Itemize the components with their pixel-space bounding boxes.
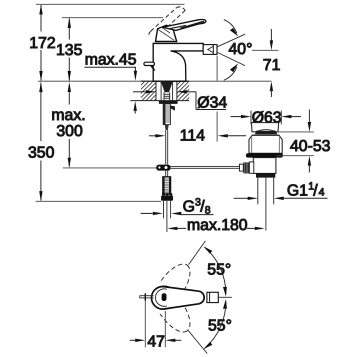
G3/8 union nut bbox=[162, 193, 165, 195]
dimension 350 bbox=[39, 82, 42, 201]
deck hatch left block bbox=[120, 80, 187, 102]
lever handle base (side view) bbox=[156, 25, 177, 41]
40 degree spray angle bbox=[217, 34, 245, 47]
deck hatch right block bbox=[156, 80, 215, 102]
top view solid body circle bbox=[153, 286, 175, 308]
dimension 71 bbox=[252, 49, 279, 51]
svg-text:300: 300 bbox=[56, 123, 83, 140]
dimension 40-53 bbox=[277, 131, 314, 133]
svg-text:114: 114 bbox=[180, 128, 205, 145]
extension line top (dashed handle tip level) bbox=[36, 3, 185, 5]
extension line deck top level bbox=[38, 80, 271, 82]
top view handle capsule bbox=[152, 287, 205, 310]
waste axis centerline bbox=[265, 178, 267, 231]
dimension 114 bbox=[216, 56, 218, 81]
dashed handle swivel positions +/-55 deg bbox=[145, 258, 197, 338]
dimension G3/8 bbox=[141, 212, 153, 214]
angular dimension 55 deg upper bbox=[218, 296, 232, 298]
svg-text:40°: 40° bbox=[229, 41, 253, 58]
washer below deck bbox=[159, 101, 178, 104]
horizontal pop-up rod to waste bbox=[171, 165, 240, 167]
waste plug cap bbox=[251, 123, 278, 132]
svg-text:max.: max. bbox=[51, 107, 85, 124]
inner contour of body bbox=[155, 289, 166, 306]
G3/8 nipple pipe bbox=[163, 201, 165, 219]
svg-text:55°: 55° bbox=[208, 317, 232, 334]
svg-text:71: 71 bbox=[263, 57, 281, 74]
svg-text:8: 8 bbox=[205, 205, 211, 217]
dimension 135 bbox=[68, 18, 71, 81]
svg-text:350: 350 bbox=[28, 145, 55, 162]
svg-text:max.180: max.180 bbox=[187, 217, 248, 234]
pop-up rod hole (dark slot) bbox=[162, 293, 167, 301]
pop-up waste: dimension diam.63 bbox=[250, 111, 252, 125]
deck (mounting surface) hatched bbox=[130, 81, 189, 100]
lever handle blade (side view) bbox=[163, 19, 206, 30]
aerator at spout end bbox=[203, 45, 217, 55]
faucet axis line below bbox=[166, 201, 168, 232]
dimension 172 bbox=[39, 4, 42, 81]
svg-text:G1: G1 bbox=[287, 183, 308, 200]
svg-text:172: 172 bbox=[29, 35, 55, 52]
hose segment below coupling bbox=[165, 171, 167, 177]
faucet body (side view) bbox=[153, 43, 203, 81]
svg-text:55°: 55° bbox=[207, 262, 231, 279]
svg-text:G: G bbox=[183, 199, 195, 216]
taper to rod bbox=[165, 125, 169, 130]
extension line rod level (max.300 bottom) bbox=[63, 167, 156, 169]
waste body lower bbox=[253, 158, 276, 174]
threaded hose end bbox=[163, 177, 171, 195]
svg-text:/: / bbox=[313, 182, 318, 199]
waste body upper bbox=[249, 135, 282, 153]
waste bottom cap bbox=[256, 173, 275, 177]
threaded stud bbox=[163, 104, 170, 125]
spout tip (top view) bbox=[207, 292, 218, 302]
dimension max.300 bbox=[68, 82, 71, 168]
extension line hose end level (350 bottom) bbox=[36, 200, 162, 202]
svg-text:47: 47 bbox=[147, 334, 165, 351]
waste side port bbox=[249, 162, 253, 173]
svg-text:Ø34: Ø34 bbox=[197, 94, 227, 111]
mounting shank in deck hole bbox=[161, 82, 173, 92]
svg-text:135: 135 bbox=[56, 42, 83, 59]
dimension 47 bbox=[144, 301, 146, 348]
dimension max.180 bbox=[167, 227, 177, 230]
rod coupling (cross fitting) bbox=[156, 165, 170, 171]
pop-up rod (top view) bbox=[140, 295, 154, 297]
dimension diam.34 (hole) bbox=[133, 91, 146, 93]
dashed handle (raised position) bbox=[149, 7, 185, 37]
extension line solid handle top level bbox=[62, 17, 163, 19]
rod guide hook bbox=[170, 106, 175, 111]
waste tailpipe bbox=[257, 178, 259, 205]
svg-text:4: 4 bbox=[319, 186, 325, 198]
waste seal flange bbox=[246, 153, 283, 157]
deck top edge bold bbox=[141, 80, 189, 82]
svg-text:40-53: 40-53 bbox=[290, 138, 331, 155]
vertical rod to coupling bbox=[165, 130, 167, 164]
angular dimension 55 deg lower bbox=[188, 330, 207, 354]
svg-text:max.45: max.45 bbox=[85, 51, 137, 68]
faucet base line on deck bbox=[153, 80, 187, 82]
pop-up actuator knob on body left bbox=[144, 62, 155, 70]
dimension G1 1/4 bbox=[234, 197, 249, 199]
